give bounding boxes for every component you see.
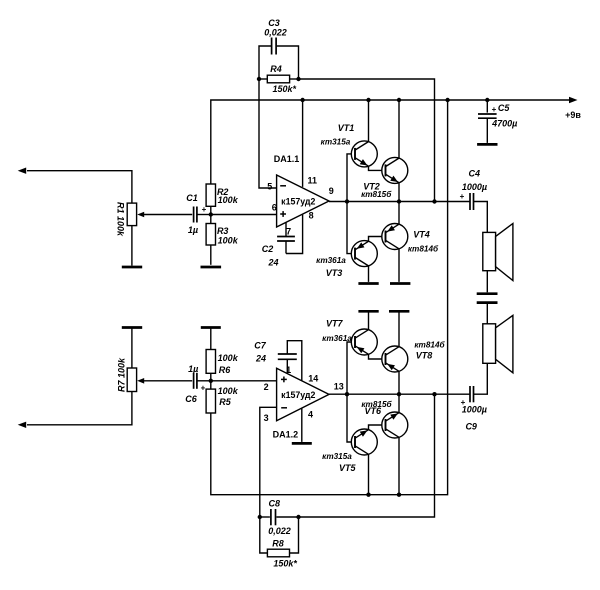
node feedback left channel 2 — [258, 515, 262, 519]
wire feedback to output channel 2 — [299, 394, 435, 517]
resistor R3 — [206, 224, 215, 246]
svg-text:DA1.2: DA1.2 — [273, 430, 299, 440]
node VT2 collector at rail — [397, 98, 401, 102]
ground R6 — [201, 326, 221, 329]
svg-text:4: 4 — [308, 409, 313, 419]
capacitor C3 — [259, 46, 271, 79]
resistor R5 — [206, 389, 215, 413]
resistor R2 — [206, 184, 215, 206]
svg-text:1000µ: 1000µ — [462, 182, 487, 192]
wire pin 14 from C7 — [287, 341, 302, 381]
wire bases VT5 VT7 — [347, 342, 355, 442]
wire pin 3 to feedback — [260, 407, 277, 517]
wire +9V supply rail — [211, 100, 569, 184]
svg-text:100k: 100k — [218, 353, 239, 363]
ground speaker 2 — [477, 301, 498, 304]
op-amp DA1.1 — [277, 175, 329, 227]
wire to pin 2 — [211, 380, 277, 382]
ground speaker 1 — [477, 292, 498, 295]
wire feedback to output channel 1 — [299, 79, 435, 202]
svg-text:VT7: VT7 — [326, 318, 344, 328]
transistor VT7 — [351, 329, 377, 355]
node VT6 collector at supply — [397, 493, 401, 497]
wire output channel 1 — [329, 201, 470, 203]
svg-text:VT1: VT1 — [338, 123, 355, 133]
ground pin 4 — [292, 442, 312, 445]
resistor R6 — [206, 350, 215, 374]
op-amp DA1.2 — [277, 368, 329, 421]
svg-text:VT6: VT6 — [364, 406, 382, 416]
transistor VT2 — [382, 157, 408, 183]
wire to pin 6 — [211, 214, 277, 216]
node output bases junction channel 2 — [345, 392, 349, 396]
svg-text:100k: 100k — [218, 195, 239, 205]
transistor VT1 — [351, 141, 377, 167]
svg-text:13: 13 — [334, 382, 344, 392]
svg-text:C9: C9 — [465, 421, 477, 431]
svg-text:VT4: VT4 — [413, 229, 430, 239]
resistor R8 — [260, 517, 268, 553]
svg-text:11: 11 — [308, 176, 318, 186]
transistor VT8 — [382, 346, 408, 372]
svg-text:C1: C1 — [186, 193, 198, 203]
node pin 11 at rail — [300, 98, 304, 102]
capacitor C9 — [474, 363, 488, 394]
node emitters output junction channel 1 — [397, 199, 401, 203]
svg-text:24: 24 — [255, 353, 266, 363]
speaker channel 2 — [486, 304, 488, 324]
input arrow channel 2 — [27, 392, 132, 425]
wire pin 11 from rail — [302, 100, 304, 187]
svg-text:VT8: VT8 — [416, 350, 433, 360]
svg-text:R4: R4 — [270, 64, 282, 74]
transistor VT4 — [382, 224, 408, 250]
capacitor C4 — [469, 193, 471, 210]
svg-text:кт814б: кт814б — [414, 339, 445, 349]
capacitor C7 — [278, 353, 297, 355]
potentiometer R1 — [127, 203, 136, 226]
svg-text:1000µ: 1000µ — [462, 404, 487, 414]
node VT1 collector at rail — [366, 98, 370, 102]
svg-text:5: 5 — [267, 182, 272, 192]
svg-text:C3: C3 — [268, 18, 280, 28]
node C5 at rail — [485, 98, 489, 102]
capacitor C8 — [260, 516, 270, 518]
ground R1 — [122, 266, 142, 269]
svg-text:кт815б: кт815б — [361, 189, 392, 199]
svg-text:к157уд2: к157уд2 — [281, 390, 315, 400]
svg-text:100k: 100k — [218, 236, 239, 246]
svg-text:1µ: 1µ — [188, 364, 198, 374]
svg-text:+: + — [460, 192, 465, 201]
svg-text:C5: C5 — [498, 103, 510, 113]
node rail to lower stage — [445, 98, 449, 102]
transistor VT3 — [351, 241, 377, 267]
svg-text:C2: C2 — [262, 244, 274, 254]
node feedback right channel 2 — [296, 515, 300, 519]
svg-text:C8: C8 — [269, 498, 281, 508]
svg-text:0,022: 0,022 — [264, 27, 287, 37]
speaker channel 1 — [483, 232, 496, 270]
svg-text:C4: C4 — [469, 169, 481, 179]
ground VT7 — [358, 310, 378, 313]
capacitor C5 — [486, 100, 488, 113]
svg-text:9: 9 — [329, 186, 334, 196]
svg-text:R1 100k: R1 100k — [115, 202, 125, 237]
node bias junction channel 2 — [209, 379, 213, 383]
ground VT8 — [389, 310, 409, 313]
svg-text:VT5: VT5 — [339, 463, 357, 473]
potentiometer R7 — [127, 368, 136, 392]
ground VT3 — [358, 282, 378, 285]
svg-text:DA1.1: DA1.1 — [274, 154, 300, 164]
svg-text:2: 2 — [264, 382, 269, 392]
node feedback left — [257, 77, 261, 81]
transistor VT5 — [351, 429, 377, 455]
svg-text:6: 6 — [272, 203, 277, 213]
svg-text:150k*: 150k* — [273, 558, 297, 568]
node emitters output junction channel 2 — [397, 392, 401, 396]
svg-text:кт814б: кт814б — [408, 243, 439, 253]
ground R3 — [201, 266, 222, 269]
svg-text:1µ: 1µ — [188, 225, 198, 235]
ground C5 — [477, 143, 497, 146]
svg-text:R8: R8 — [272, 539, 284, 549]
svg-text:R5: R5 — [219, 397, 231, 407]
wire pin 8 to C2 — [286, 215, 303, 254]
svg-text:C7: C7 — [254, 340, 266, 350]
node bias junction channel 1 — [209, 212, 213, 216]
svg-text:7: 7 — [286, 227, 291, 237]
capacitor C6 — [193, 373, 195, 389]
svg-text:VT3: VT3 — [326, 268, 343, 278]
svg-text:R3: R3 — [217, 226, 229, 236]
ground R7 — [122, 326, 142, 329]
wire pin 5 to feedback — [259, 79, 277, 188]
node output bases junction channel 1 — [345, 199, 349, 203]
svg-text:14: 14 — [308, 374, 318, 384]
svg-text:4700µ: 4700µ — [491, 119, 517, 129]
svg-text:R6: R6 — [219, 365, 231, 375]
wire pin 4 to ground — [301, 408, 303, 442]
svg-text:C6: C6 — [185, 394, 197, 404]
svg-text:100k: 100k — [218, 386, 239, 396]
svg-text:кт361а: кт361а — [322, 334, 352, 343]
wire output channel 2 — [329, 393, 470, 395]
input arrow channel 1 — [27, 171, 132, 203]
node feedback junction channel 1 — [432, 199, 436, 203]
svg-text:3: 3 — [264, 413, 269, 423]
svg-text:к157уд2: к157уд2 — [281, 197, 315, 207]
svg-text:8: 8 — [309, 211, 314, 221]
ground VT4 — [390, 282, 410, 285]
transistor VT6 — [382, 412, 408, 438]
node VT5 collector at supply — [366, 493, 370, 497]
wire bases VT1 VT3 — [347, 154, 355, 254]
svg-text:+: + — [492, 105, 497, 114]
svg-text:кт315а: кт315а — [321, 137, 351, 146]
svg-text:R7 100k: R7 100k — [116, 357, 126, 392]
capacitor C2 — [285, 222, 287, 236]
resistor R4 — [267, 75, 289, 83]
svg-text:24: 24 — [267, 257, 278, 267]
svg-text:кт315а: кт315а — [322, 452, 352, 461]
svg-text:кт361а: кт361а — [316, 256, 346, 265]
capacitor C1 — [193, 207, 195, 223]
node feedback junction channel 2 — [432, 392, 436, 396]
wire +9V to lower stage — [211, 100, 448, 495]
svg-text:+: + — [201, 383, 206, 392]
svg-text:150k*: 150k* — [273, 84, 297, 94]
svg-text:+9в: +9в — [565, 110, 581, 120]
node feedback right — [296, 77, 300, 81]
svg-text:0,022: 0,022 — [268, 526, 291, 536]
